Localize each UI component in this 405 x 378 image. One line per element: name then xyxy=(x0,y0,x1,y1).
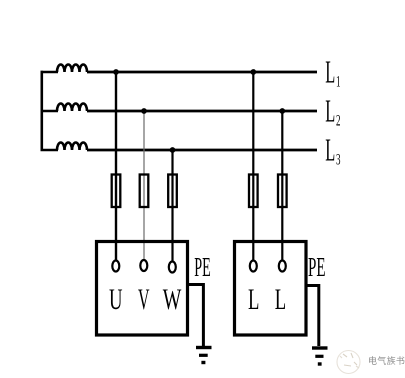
svg-text:1: 1 xyxy=(336,74,341,91)
terminal circle L right xyxy=(279,261,286,272)
wire: L2 left segment xyxy=(41,110,59,113)
ground symbol 1 bar 2 xyxy=(199,354,208,357)
wire: L2 bus line xyxy=(87,110,317,113)
fuse F1 xyxy=(112,175,121,208)
watermark logo icon xyxy=(337,351,360,374)
ground symbol 2 bar 1 xyxy=(312,346,328,349)
terminal circle V xyxy=(140,260,147,271)
wire: left vertical tie bus xyxy=(40,71,43,151)
wire: drop from L2 to terminal L (right, box 2) xyxy=(281,111,283,262)
wire: L1 bus line xyxy=(87,71,317,74)
terminal circle L left xyxy=(250,261,257,272)
svg-text:L: L xyxy=(325,93,335,129)
junction dot on L2 xyxy=(141,108,147,114)
wire: PE tap box 1 xyxy=(188,285,204,347)
fuse F5 xyxy=(278,175,287,208)
inductor coil on L2 xyxy=(57,104,87,111)
ground symbol 1 bar 1 xyxy=(196,346,212,349)
terminal circle U xyxy=(112,261,119,272)
equipment box 2 (L L load) xyxy=(235,242,307,336)
fuse F3 xyxy=(168,175,177,208)
svg-text:PE: PE xyxy=(194,252,211,282)
wire: drop from L2 to terminal V (thin) xyxy=(143,111,145,262)
junction dot on L3 xyxy=(170,147,176,153)
wire: drop from L1 to terminal U xyxy=(115,72,117,262)
svg-text:L: L xyxy=(248,283,259,316)
svg-text:L: L xyxy=(325,132,335,168)
ground symbol 2 bar 3 xyxy=(318,362,322,365)
svg-text:V: V xyxy=(138,283,150,316)
svg-text:L: L xyxy=(275,283,286,316)
svg-text:W: W xyxy=(163,283,182,316)
wire: PE tap box 2 xyxy=(306,286,319,347)
ground symbol 1 bar 3 xyxy=(201,361,205,364)
terminal circle W xyxy=(169,262,176,273)
junction dot on L2 (right) xyxy=(279,108,285,114)
junction dot on L1 xyxy=(113,69,119,75)
fuse F4 xyxy=(249,175,258,208)
junction dot on L1 (right) xyxy=(250,69,256,75)
wire: L1 left segment xyxy=(41,71,59,74)
inductor coil on L3 xyxy=(57,143,87,150)
ground symbol 2 bar 2 xyxy=(315,355,323,358)
svg-text:3: 3 xyxy=(336,152,341,169)
wire: L3 bus line xyxy=(87,149,317,152)
inductor coil on L1 xyxy=(57,65,87,73)
wire: drop from L3 to terminal W xyxy=(171,150,173,262)
fuse F2 xyxy=(140,175,149,208)
wire: drop from L1 to terminal L (left, box 2) xyxy=(252,72,254,262)
svg-text:电气族书: 电气族书 xyxy=(368,355,405,366)
wire: L3 left segment xyxy=(41,149,59,152)
svg-text:PE: PE xyxy=(308,252,326,282)
svg-text:2: 2 xyxy=(336,113,341,130)
svg-text:U: U xyxy=(109,283,123,316)
equipment box 1 (U V W load) xyxy=(97,242,188,336)
svg-text:L: L xyxy=(325,54,335,90)
